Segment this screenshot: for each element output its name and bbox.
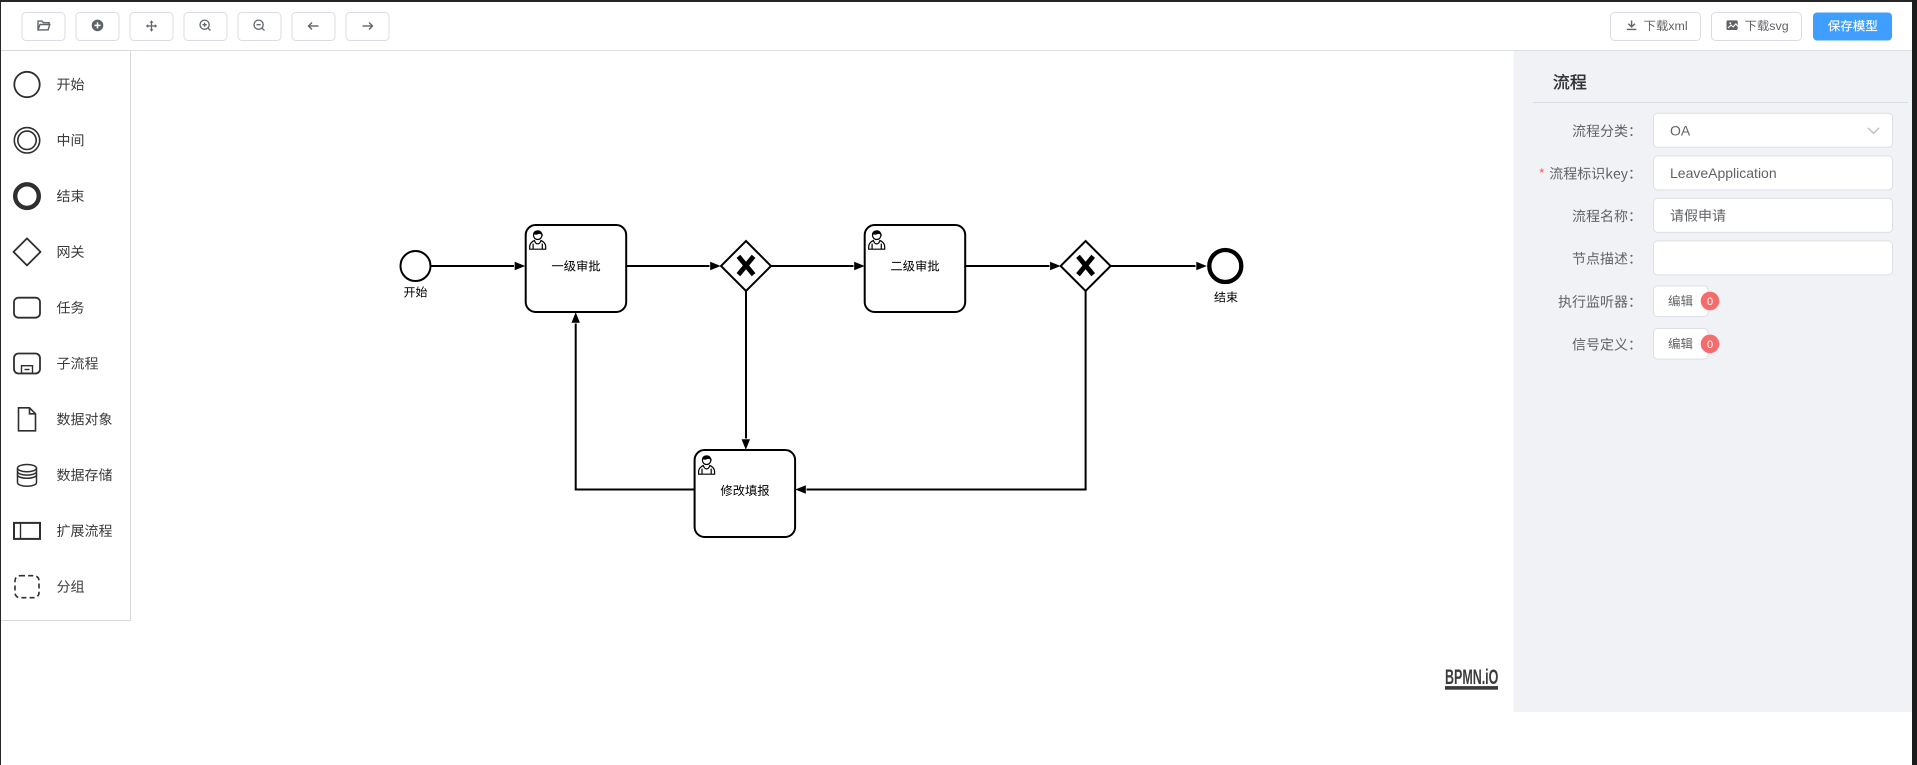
BPMN user task 修改填报 — [695, 450, 796, 537]
toolbar button: open file (folder icon) — [22, 13, 65, 41]
form row: 流程名称 input — [1573, 209, 1633, 222]
sequence flow: 修改填报 back to 一级审批 — [576, 324, 695, 490]
properties panel background — [1514, 51, 1912, 712]
BPMN end event 结束 — [1209, 250, 1241, 282]
sequence flow: gateway 2 down and left into 修改填报 — [807, 291, 1086, 490]
BPMN exclusive gateway 1 — [721, 241, 771, 291]
BPMN diagram canvas — [401, 251, 431, 281]
panel title divider — [1533, 102, 1908, 104]
sequence flow: 二级审批 to gateway 2 — [965, 265, 1049, 267]
BPMN user task 二级审批 — [865, 225, 966, 312]
svg-text:LeaveApplication: LeaveApplication — [1670, 165, 1777, 181]
form row: 节点描述 input (empty) — [1573, 252, 1633, 265]
palette item: data object 数据对象 — [19, 408, 36, 431]
svg-text:xml: xml — [1668, 19, 1687, 33]
window right dark edge — [1912, 0, 1917, 765]
sequence flow: gateway 1 down to 修改填报 — [745, 291, 747, 439]
sequence flow: start to 一级审批 — [431, 265, 514, 267]
form row: 流程分类 select — [1573, 124, 1633, 137]
toolbar button: download xml — [1611, 13, 1701, 41]
window top dark edge — [0, 0, 1917, 2]
form row: 信号定义 edit button with badge — [1572, 338, 1632, 351]
palette item: end event 结束 — [15, 184, 39, 208]
palette item: intermediate event 中间 — [14, 128, 39, 153]
BPMN exclusive gateway 2 — [1061, 241, 1111, 291]
palette panel — [1, 51, 131, 621]
palette item: data store 数据存储 — [18, 465, 37, 487]
palette item: subprocess 子流程 — [14, 354, 40, 374]
palette item: start event 开始 — [14, 72, 39, 97]
form row: 执行监听器 edit button with badge — [1558, 295, 1632, 308]
svg-text:0: 0 — [1707, 296, 1713, 308]
toolbar button: download svg — [1712, 13, 1802, 41]
BPMN user task 一级审批 — [526, 225, 627, 312]
panel title 流程 — [1553, 74, 1586, 90]
sequence flow: gateway 2 to 结束 — [1111, 265, 1196, 267]
svg-text:BPMN.iO: BPMN.iO — [1445, 665, 1498, 689]
svg-text:OA: OA — [1670, 122, 1691, 138]
svg-text:0: 0 — [1707, 339, 1713, 351]
palette item: expanded subprocess 扩展流程 — [14, 523, 40, 539]
toolbar button: save model (primary blue) — [1813, 13, 1892, 41]
toolbar button: redo (right arrow) — [346, 13, 389, 41]
toolbar button: zoom out — [238, 13, 281, 41]
bpmn.io logo watermark — [1445, 665, 1498, 689]
palette item: task 任务 — [14, 298, 40, 318]
form row: 流程标识key input — [1539, 168, 1544, 173]
palette item: group 分组 — [15, 576, 39, 598]
palette item: gateway 网关 — [14, 238, 41, 265]
svg-text:svg: svg — [1769, 19, 1788, 33]
sequence flow: gateway 1 to 二级审批 — [771, 265, 854, 267]
BPMN start event 开始 — [401, 251, 431, 281]
toolbar button: create new (circle-plus icon) — [76, 13, 119, 41]
toolbar button: pan / move (rank icon) — [130, 13, 173, 41]
toolbar button: zoom in — [184, 13, 227, 41]
window left dark edge — [0, 2, 1, 765]
toolbar button: undo (back arrow) — [292, 13, 335, 41]
toolbar bottom border — [1, 50, 1912, 52]
sequence flow: 一级审批 to gateway 1 — [626, 265, 709, 267]
